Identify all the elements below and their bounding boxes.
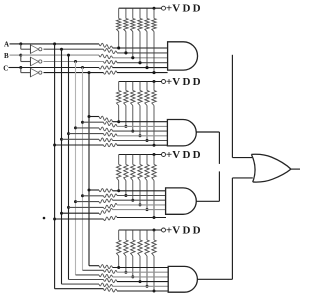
resistor pull-up R22: [125, 82, 127, 91]
resistor series jog gate1 line 1: [99, 43, 113, 48]
node R14 tap: [139, 61, 142, 64]
and-gate U6: [166, 188, 197, 214]
node rail C bus tap: [81, 66, 84, 69]
node AND3 bus tap 6: [53, 218, 56, 221]
node AND1 pull-up tap 3: [131, 56, 134, 59]
node R33 tap: [131, 199, 134, 202]
resistor pull-up R13: [132, 8, 134, 18]
svg-text:C: C: [3, 64, 8, 72]
wire AND2 line 5 left: [62, 138, 100, 140]
resistor series jog AND3 line 4: [104, 203, 118, 208]
node AND1 pull-up tap 5: [146, 66, 149, 69]
wire AND1 input line 6: [117, 72, 168, 74]
wire AND3 line 6 right: [117, 217, 166, 219]
and-gate U7: [168, 266, 197, 292]
wire AND2 output: [196, 131, 219, 133]
resistor series jog gate1 line 3: [99, 54, 113, 59]
resistor series jog AND2 line 6: [104, 143, 118, 146]
wire bus vertical B: [68, 55, 70, 279]
resistor series jog AND2 line 2: [104, 122, 118, 127]
wire C branch to inverter: [20, 68, 22, 73]
resistor pull-up R34: [139, 155, 141, 165]
power VDD terminal 2: [162, 80, 166, 84]
node rail B' bus tap: [74, 60, 77, 63]
wire AND4 line 4 left: [69, 279, 104, 281]
wire AND4 line 2 right: [117, 271, 168, 273]
node AND2 bus tap 2: [81, 121, 84, 124]
wire AND1 input line 5: [113, 67, 168, 69]
wire input C lead: [9, 67, 21, 69]
wire AND3 line 3 left: [76, 201, 100, 203]
node R15 tap: [146, 66, 149, 69]
wire AND2 line 2 right: [117, 125, 167, 127]
or-gate U8: [251, 154, 291, 182]
wire AND3 line 1 right: [113, 190, 166, 192]
resistor series jog AND2 line 4: [104, 133, 118, 137]
node R16 tap: [153, 71, 156, 74]
node AND2 bus tap 3: [74, 126, 77, 129]
svg-text:+: +: [166, 149, 172, 161]
node AND1 pull-up tap 4: [139, 61, 142, 64]
resistor series jog AND2 line 5: [99, 138, 113, 142]
wire VDD rail 2: [119, 81, 162, 83]
wire rail B: [21, 54, 99, 56]
wire rail C': [44, 72, 104, 74]
resistor series jog AND3 line 5: [99, 208, 113, 214]
resistor pull-up R45: [146, 230, 148, 240]
power VDD terminal 1: [162, 6, 166, 10]
node VDD rail 1 junction: [153, 7, 156, 10]
wire AND1 input line 1: [113, 47, 168, 49]
node A junction: [19, 42, 22, 45]
wire AND4 line 5 right: [113, 285, 169, 287]
node stray junction: [43, 217, 46, 220]
resistor pull-up R44: [139, 230, 141, 240]
resistor series jog AND4 line 4: [104, 278, 118, 282]
resistor series jog gate1 line 6: [104, 71, 118, 74]
wire AND3 line 6 left: [55, 218, 104, 220]
node R45 tap: [146, 285, 149, 288]
svg-text:+: +: [166, 224, 172, 236]
resistor pull-up R14: [139, 8, 141, 18]
wire AND4 line 1 left: [89, 265, 99, 267]
wire AND2 line 4 right: [117, 135, 167, 137]
node R22 tap: [124, 125, 127, 128]
svg-text:+: +: [166, 76, 172, 88]
wire AND4 line 5 left: [62, 283, 100, 285]
node R13 tap: [131, 56, 134, 59]
wire AND3 line 2 right: [117, 195, 166, 197]
node rail B bus tap: [67, 54, 70, 57]
wire bus vertical C': [88, 73, 90, 266]
wire AND1 input line 3: [113, 57, 168, 59]
node R35 tap: [146, 208, 149, 211]
wire AND4 line 6 right: [117, 290, 168, 292]
node R31 tap: [117, 189, 120, 192]
resistor pull-up R26: [153, 82, 155, 91]
and-gate U5: [167, 120, 196, 146]
wire A branch to inverter: [20, 44, 22, 49]
wire OR input 1: [232, 157, 252, 159]
node VDD rail 3 junction: [153, 153, 156, 156]
resistor series jog AND4 line 1: [99, 265, 113, 269]
node AND3 bus tap 1: [88, 189, 91, 192]
wire AND4 line 4 right: [117, 281, 168, 283]
node AND3 bus tap 5: [60, 212, 63, 215]
node AND1 pull-up tap 6: [153, 71, 156, 74]
resistor pull-up R25: [146, 82, 148, 91]
node C junction: [19, 66, 22, 69]
node R26 tap: [153, 144, 156, 147]
resistor series jog AND4 line 5: [99, 283, 113, 287]
node R24 tap: [139, 134, 142, 137]
wire AND2 line 1 right: [113, 121, 168, 123]
node R42 tap: [124, 271, 127, 274]
resistor series jog AND3 line 3: [99, 199, 113, 203]
resistor series jog AND4 line 2: [104, 269, 118, 273]
resistor pull-up R36: [153, 155, 155, 165]
node AND2 bus tap 6: [53, 144, 56, 147]
wire VDD rail 1: [119, 7, 162, 9]
wire rail B': [44, 61, 104, 63]
wire AND2 line 5 right: [113, 140, 168, 142]
wire OR output: [291, 168, 300, 170]
node AND3 bus tap 4: [67, 206, 70, 209]
node AND1 pull-up tap 1: [117, 47, 120, 50]
node R23 tap: [131, 130, 134, 133]
power VDD terminal 4: [162, 228, 166, 232]
node rail A' bus tap: [60, 48, 63, 51]
wire AND2 line 4 left: [69, 133, 104, 135]
node AND3 bus tap 2: [81, 194, 84, 197]
node VDD rail 2 junction: [153, 80, 156, 83]
resistor pull-up R42: [125, 230, 127, 240]
wire AND2 line 1 left: [89, 116, 99, 118]
node R46 tap: [153, 290, 156, 293]
wire AND3 output: [196, 200, 219, 202]
wire AND2 output riser stub: [218, 132, 220, 164]
wire OR input 2: [232, 177, 252, 179]
node rail C' bus tap: [88, 71, 91, 74]
resistor pull-up R43: [132, 230, 134, 240]
resistor series jog AND3 line 1: [99, 189, 113, 193]
resistor pull-up R11: [118, 8, 120, 18]
wire AND2 line 2 left: [83, 121, 104, 123]
wire AND4 line 3 left: [76, 274, 100, 276]
resistor pull-up R21: [118, 82, 120, 91]
node R43 tap: [131, 275, 134, 278]
wire input B lead: [10, 54, 21, 56]
svg-text:VDD: VDD: [172, 149, 202, 161]
resistor series jog gate1 line 4: [104, 60, 118, 64]
node VDD rail 4 junction: [153, 229, 156, 232]
node R34 tap: [139, 203, 142, 206]
resistor pull-up R15: [146, 8, 148, 18]
resistor series jog AND2 line 1: [99, 116, 113, 122]
wire rail C: [21, 67, 99, 69]
resistor pull-up R35: [146, 155, 148, 165]
node R12 tap: [124, 51, 127, 54]
wire AND1 input line 4: [117, 62, 168, 64]
resistor series jog gate1 line 5: [99, 66, 113, 69]
wire rail A: [21, 43, 99, 45]
wire rail A': [44, 48, 104, 50]
wire AND3 line 4 left: [69, 206, 104, 208]
resistor pull-up R32: [125, 155, 127, 165]
resistor series jog AND2 line 3: [99, 127, 113, 132]
node R32 tap: [124, 194, 127, 197]
wire AND3 output riser stub: [218, 171, 220, 201]
resistor series jog AND3 line 6: [104, 216, 118, 220]
resistor pull-up R24: [139, 82, 141, 91]
wire AND4 line 3 right: [113, 276, 169, 278]
resistor series jog gate1 line 2: [104, 48, 118, 53]
node B junction: [19, 54, 22, 57]
node R25 tap: [146, 139, 149, 142]
svg-text:VDD: VDD: [172, 76, 202, 88]
node R44 tap: [139, 280, 142, 283]
node rail A bus tap: [53, 42, 56, 45]
svg-text:VDD: VDD: [172, 3, 202, 15]
wire VDD rail 4: [119, 229, 162, 231]
power VDD terminal 3: [162, 153, 166, 157]
wire AND4 line 1 right: [113, 267, 169, 269]
svg-text:+: +: [166, 3, 172, 15]
wire AND4 line 6 left: [55, 288, 104, 290]
wire AND1 output riser: [231, 55, 233, 158]
svg-text:B: B: [4, 52, 9, 60]
resistor pull-up R41: [118, 230, 120, 240]
resistor pull-up R33: [132, 155, 134, 165]
resistor series jog AND4 line 3: [99, 274, 113, 278]
node AND2 bus tap 5: [60, 138, 63, 141]
resistor pull-up R16: [153, 8, 155, 18]
wire AND4 output riser: [231, 178, 233, 279]
resistor series jog AND3 line 2: [104, 194, 118, 197]
wire AND3 line 5 right: [113, 209, 166, 211]
wire bus vertical C: [82, 68, 84, 271]
and-gate U4: [168, 42, 198, 70]
node AND2 bus tap 1: [88, 115, 91, 118]
inverter U2: [30, 57, 38, 66]
wire AND2 line 3 right: [113, 130, 168, 132]
wire AND3 line 3 right: [113, 199, 166, 201]
resistor series jog AND4 line 6: [104, 288, 118, 292]
wire AND2 line 3 left: [76, 127, 100, 129]
wire AND3 line 5 left: [62, 212, 100, 214]
wire AND2 line 6 right: [117, 144, 167, 146]
node AND2 bus tap 4: [67, 132, 70, 135]
wire bus vertical B': [75, 62, 77, 275]
wire AND1 input line 2: [117, 52, 168, 54]
resistor pull-up R23: [132, 82, 134, 91]
resistor pull-up R46: [153, 230, 155, 240]
wire AND3 line 2 left: [83, 195, 104, 197]
resistor pull-up R31: [118, 155, 120, 165]
resistor pull-up R12: [125, 8, 127, 18]
wire bus vertical A': [61, 49, 63, 284]
wire AND3 line 1 left: [89, 189, 99, 191]
wire AND3 line 4 right: [117, 204, 166, 206]
wire VDD rail 3: [119, 154, 162, 156]
wire bus vertical A: [54, 44, 56, 289]
wire input A lead: [10, 43, 21, 45]
svg-text:A: A: [4, 41, 9, 49]
node R11 tap: [117, 47, 120, 50]
wire B branch to inverter: [20, 55, 22, 61]
node AND3 bus tap 3: [74, 200, 77, 203]
inverter U1: [30, 45, 38, 54]
node R21 tap: [117, 120, 120, 123]
wire AND4 output: [197, 278, 232, 280]
wire AND2 line 6 left: [55, 144, 104, 146]
node R36 tap: [153, 216, 156, 219]
svg-text:VDD: VDD: [172, 224, 202, 236]
inverter U3: [30, 68, 38, 77]
node R41 tap: [117, 266, 120, 269]
wire AND4 line 2 left: [83, 269, 104, 271]
node AND1 pull-up tap 2: [124, 51, 127, 54]
